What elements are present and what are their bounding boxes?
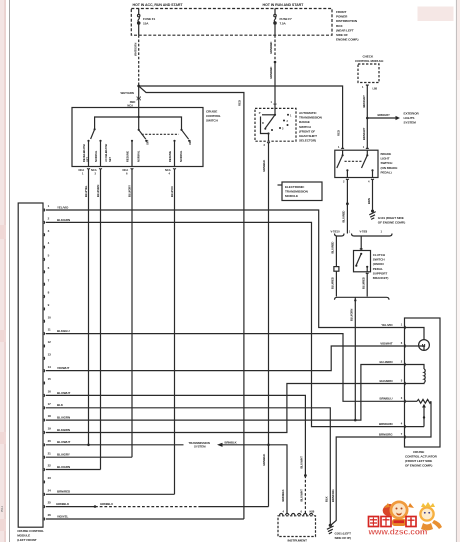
- label clutch switch: [373, 253, 389, 280]
- actuator wire labels: [379, 323, 393, 436]
- inline connector on switch feed: [137, 96, 141, 100]
- svg-text:BRACKET): BRACKET): [373, 276, 389, 280]
- svg-text:SWITCH: SWITCH: [373, 258, 386, 262]
- svg-text:YEL/VIO: YEL/VIO: [57, 205, 69, 209]
- pin L88 of check control module: [366, 84, 369, 87]
- svg-text:BRN/RED: BRN/RED: [57, 490, 71, 494]
- svg-text:11: 11: [48, 328, 51, 332]
- svg-text:ELECTRONIC: ELECTRONIC: [285, 185, 305, 189]
- wire module pin17 BLK to ground G201: [46, 408, 331, 524]
- svg-text:R: R: [262, 122, 264, 125]
- svg-text:2: 2: [401, 359, 403, 363]
- svg-text:FUSE F1: FUSE F1: [143, 17, 156, 21]
- svg-text:CRUISE: CRUISE: [206, 110, 217, 114]
- connector braces V-7/E10 V-7/E8: [331, 230, 393, 237]
- svg-text:3: 3: [95, 172, 97, 176]
- svg-text:7: 7: [401, 432, 403, 436]
- svg-text:NORMAL: NORMAL: [136, 150, 140, 162]
- wire arrow to exterior lights system: [367, 117, 395, 119]
- svg-text:25: 25: [48, 501, 52, 505]
- wire module pin18 BLU/GRN to actuator pin2: [46, 365, 404, 421]
- svg-text:1: 1: [362, 85, 364, 89]
- svg-text:2: 2: [287, 120, 289, 123]
- svg-text:3: 3: [48, 229, 50, 233]
- svg-text:SWITCH: SWITCH: [299, 125, 312, 129]
- switch bottom pins NCA connectors: [79, 168, 176, 176]
- svg-text:SWITCH: SWITCH: [206, 119, 219, 123]
- svg-text:2: 2: [264, 143, 266, 147]
- electronic transmission module label box: [282, 182, 322, 201]
- wire GRN/BLK from range switch to module pin 25: [268, 143, 270, 507]
- wire module pin24 BRN/RED to switch: [46, 493, 175, 495]
- svg-text:MODULE: MODULE: [17, 534, 30, 538]
- svg-text:LIGHTS: LIGHTS: [404, 116, 415, 120]
- svg-text:BLU/GRN: BLU/GRN: [57, 465, 70, 469]
- svg-text:WHT/GRN: WHT/GRN: [121, 91, 134, 95]
- svg-text:GRN/BLK: GRN/BLK: [262, 454, 266, 466]
- svg-text:BOX: BOX: [336, 24, 343, 28]
- svg-text:26: 26: [48, 513, 52, 517]
- svg-text:BLU/GRY: BLU/GRY: [57, 453, 70, 457]
- svg-text:OFF: OFF: [188, 139, 192, 145]
- svg-text:RED: RED: [130, 100, 136, 104]
- svg-text:BLU/YEL: BLU/YEL: [84, 185, 88, 197]
- svg-text:1: 1: [349, 230, 351, 234]
- front power distribution box (dashed): [131, 9, 332, 36]
- svg-text:BLU/GRY: BLU/GRY: [128, 185, 132, 197]
- svg-text:12: 12: [48, 340, 52, 344]
- wire BLU/RED left branch with inline connector: [335, 236, 337, 267]
- svg-text:BLK/BRN: BLK/BRN: [57, 428, 70, 432]
- svg-text:YEL/VIO: YEL/VIO: [381, 323, 393, 327]
- svg-text:2: 2: [48, 217, 50, 221]
- svg-text:20: 20: [48, 439, 52, 443]
- watermark mascot figures: [383, 501, 442, 531]
- svg-text:(NEAR LEFT: (NEAR LEFT: [336, 28, 354, 32]
- svg-text:6: 6: [48, 266, 50, 270]
- svg-text:BRAKE: BRAKE: [381, 152, 392, 156]
- mechanical link (dashed): [142, 133, 179, 135]
- svg-text:AUTOMATIC: AUTOMATIC: [299, 111, 317, 115]
- svg-text:RANGE: RANGE: [299, 120, 310, 124]
- fuse F1: [138, 9, 156, 36]
- svg-text:OF ENGINE COMP.): OF ENGINE COMP.): [378, 221, 405, 225]
- wire module pin11 BLK/BLU to actuator pin3: [46, 334, 404, 402]
- wire module pin25 GRN/BLK dashed to range switch: [46, 506, 95, 508]
- instrument cluster (dashed box): [278, 510, 316, 542]
- svg-text:P: P: [259, 111, 261, 115]
- page fold line: [9, 0, 11, 542]
- svg-text:INSTRUMENT: INSTRUMENT: [288, 539, 308, 542]
- actuator motor M: [405, 328, 430, 351]
- svg-text:RED: RED: [337, 130, 341, 136]
- svg-text:GRN/RED: GRN/RED: [269, 67, 273, 79]
- svg-text:SELECTOR): SELECTOR): [299, 139, 316, 143]
- svg-text:NCA: NCA: [91, 168, 97, 172]
- svg-text:4: 4: [48, 241, 50, 245]
- svg-text:1: 1: [271, 100, 273, 104]
- wire BLU/GRN clutch chain to module pin18 net: [354, 301, 356, 420]
- wire module pin19 BLK/BRN to actuator pin5: [46, 384, 404, 433]
- pin 2 of range switch: [267, 141, 270, 144]
- svg-text:BRN/GRN: BRN/GRN: [379, 422, 392, 426]
- wire module pin21 BLU/GRY to switch: [46, 456, 132, 458]
- switch S2 resume: [131, 129, 148, 167]
- svg-text:(LEFT FRONT: (LEFT FRONT: [17, 538, 37, 542]
- svg-text:RESUME: RESUME: [168, 151, 172, 162]
- svg-text:NCA: NCA: [123, 168, 129, 172]
- svg-text:1: 1: [82, 172, 84, 176]
- svg-text:BLK: BLK: [325, 496, 329, 502]
- svg-text:BLU/VIO: BLU/VIO: [170, 185, 174, 197]
- node BRN/GRY junction: [366, 117, 369, 120]
- svg-text:22: 22: [48, 464, 52, 468]
- label cruise control actuator: [405, 450, 438, 468]
- svg-text:BRN/BLU: BRN/BLU: [380, 397, 393, 401]
- svg-text:BLU/WHT: BLU/WHT: [57, 440, 71, 444]
- svg-text:BLU/RED: BLU/RED: [362, 277, 366, 289]
- svg-text:13: 13: [48, 352, 52, 356]
- wire module pin26 VIO/YEL feed: [46, 518, 244, 520]
- svg-text:DECELERATE/: DECELERATE/: [82, 144, 86, 162]
- svg-text:P54-1: P54-1: [1, 505, 4, 512]
- svg-text:GEAR SHIFT: GEAR SHIFT: [299, 134, 317, 138]
- bottom merge brace: [335, 297, 390, 300]
- svg-text:18: 18: [48, 414, 52, 418]
- scan edge pink stripe: [0, 0, 6, 542]
- svg-text:G201 (LEFT: G201 (LEFT: [335, 532, 352, 536]
- svg-text:BRN: BRN: [367, 198, 371, 204]
- svg-text:7: 7: [48, 278, 50, 282]
- svg-text:6: 6: [301, 510, 303, 514]
- svg-text:(ON BRAKE: (ON BRAKE: [381, 166, 398, 170]
- switch position labels (rotated): [82, 139, 192, 162]
- svg-text:SUPPORT: SUPPORT: [373, 271, 388, 275]
- wire module pin2 BLK/GRN to actuator pin4: [46, 222, 404, 426]
- svg-text:TRANSMISSION: TRANSMISSION: [299, 116, 323, 120]
- svg-text:SYSTEM: SYSTEM: [194, 445, 206, 449]
- wire module pin16 BLU/WHT to instrument cluster: [46, 395, 306, 475]
- ground G201: [327, 524, 334, 534]
- svg-text:EXTERIOR: EXTERIOR: [404, 112, 420, 116]
- wire BRN to ground G101: [372, 180, 374, 210]
- svg-text:4: 4: [169, 172, 171, 176]
- svg-text:BRN/BLK: BRN/BLK: [281, 489, 285, 501]
- svg-text:SET: SET: [86, 157, 90, 162]
- svg-text:FRONT: FRONT: [336, 10, 346, 14]
- svg-text:RESUME: RESUME: [125, 151, 129, 162]
- cruise control switch box: [72, 108, 203, 167]
- svg-text:BLU/WHT: BLU/WHT: [57, 391, 71, 395]
- svg-text:CONTROL: CONTROL: [206, 114, 221, 118]
- svg-text:15: 15: [48, 377, 52, 381]
- svg-text:6: 6: [126, 172, 128, 176]
- svg-text:GRN/RED: GRN/RED: [269, 42, 273, 54]
- svg-text:(ON/ON: (ON/ON: [373, 262, 385, 266]
- svg-text:21: 21: [48, 451, 52, 455]
- svg-text:5: 5: [48, 254, 50, 258]
- svg-text:CRUISE CONTROL: CRUISE CONTROL: [17, 529, 44, 533]
- svg-text:PEDAL): PEDAL): [381, 170, 392, 174]
- node F1 junction: [137, 85, 140, 88]
- svg-text:L88: L88: [373, 87, 378, 91]
- svg-text:BRN/GRY: BRN/GRY: [378, 113, 390, 117]
- svg-text:K88: K88: [310, 510, 315, 514]
- cruise control module box: [18, 203, 43, 527]
- svg-text:ACCELERATE/: ACCELERATE/: [104, 144, 108, 162]
- wire BRN/GRY from check module to brake switch: [366, 85, 368, 149]
- svg-text:BLU/GRN: BLU/GRN: [96, 185, 100, 197]
- svg-text:BRN/ORG: BRN/ORG: [331, 489, 335, 502]
- svg-text:LIGHT: LIGHT: [381, 157, 390, 161]
- svg-text:SIDE OF IP): SIDE OF IP): [335, 536, 351, 540]
- wire switch pin3 down to module pin22: [100, 169, 102, 470]
- wire module pin14 VIO/WHT to actuator pin6: [46, 346, 404, 371]
- svg-text:4: 4: [283, 510, 285, 514]
- svg-text:9: 9: [48, 303, 50, 307]
- svg-text:4: 4: [368, 180, 370, 184]
- svg-text:BLU/BRN: BLU/BRN: [380, 360, 393, 364]
- cruise control actuator box: [405, 318, 441, 447]
- label automatic transmission range switch: [299, 111, 323, 143]
- svg-text:CRUISE: CRUISE: [413, 450, 424, 454]
- svg-text:G101 (RIGHT SIDE: G101 (RIGHT SIDE: [378, 216, 404, 220]
- svg-text:TRANSMISSION: TRANSMISSION: [285, 189, 309, 193]
- svg-text:PEDAL: PEDAL: [373, 267, 383, 271]
- faint pink wash top right: [418, 7, 454, 22]
- wire BRN/ORG from actuator to ground G201: [331, 437, 404, 525]
- wire module pin22 BLU/GRN to switch: [46, 469, 101, 471]
- svg-text:BLU/RED: BLU/RED: [331, 242, 335, 254]
- svg-text:HOT IN RUN AND START: HOT IN RUN AND START: [263, 3, 305, 7]
- svg-text:OF ENGINE COMP.): OF ENGINE COMP.): [405, 464, 432, 468]
- svg-text:5: 5: [401, 378, 403, 382]
- module connector pins 1-26: [44, 204, 51, 520]
- wire module pin1 YEL/VIO to actuator pin1: [46, 210, 404, 328]
- svg-text:2: 2: [343, 180, 345, 184]
- svg-text:BRN/BLK: BRN/BLK: [225, 440, 237, 444]
- svg-text:MODULE: MODULE: [285, 194, 298, 198]
- svg-text:NORMAL: NORMAL: [94, 150, 98, 162]
- svg-text:GRN/BLU: GRN/BLU: [100, 502, 113, 506]
- svg-text:ENGINE COMP.): ENGINE COMP.): [336, 38, 359, 42]
- svg-text:SWITCH: SWITCH: [381, 161, 394, 165]
- wire switch pin1 down to pin20 line: [88, 169, 90, 445]
- wire labels below switch: [84, 185, 174, 197]
- brake switch contacts: [337, 150, 374, 177]
- svg-text:BRN/GRY: BRN/GRY: [362, 128, 366, 140]
- svg-text:BLU/RED: BLU/RED: [331, 277, 335, 289]
- wire GRN/RED from fuse F7: [274, 35, 276, 61]
- svg-text:BLU/GRN: BLU/GRN: [349, 309, 353, 321]
- svg-text:(FRONT OF: (FRONT OF: [299, 129, 315, 133]
- pin 1 of range switch: [274, 103, 277, 106]
- svg-text:3: 3: [282, 128, 284, 131]
- svg-text:BLU/GRN: BLU/GRN: [57, 416, 70, 420]
- wire A to brake light switch: [139, 86, 343, 149]
- svg-text:BRN/ORG: BRN/ORG: [379, 432, 393, 436]
- svg-text:14: 14: [48, 365, 52, 369]
- svg-text:FUSE F7: FUSE F7: [280, 17, 293, 21]
- clutch switch: [360, 236, 362, 250]
- svg-text:SIDE OF: SIDE OF: [336, 33, 348, 37]
- svg-text:V-7/E10: V-7/E10: [331, 230, 341, 234]
- actuator position potentiometer: [405, 399, 432, 437]
- wire B (RED) to module pin 26: [139, 86, 244, 519]
- wire module pin20 BLU/WHT / transmission system arrow / cluster pin4: [46, 444, 184, 446]
- svg-text:(FRONT LEFT SIDE: (FRONT LEFT SIDE: [405, 459, 432, 463]
- svg-text:NCA: NCA: [165, 168, 171, 172]
- svg-text:24: 24: [48, 488, 52, 492]
- svg-text:BLU/WHT: BLU/WHT: [299, 456, 303, 469]
- svg-text:VIO/YEL: VIO/YEL: [57, 514, 69, 518]
- svg-text:1: 1: [401, 322, 403, 326]
- svg-text:1: 1: [48, 204, 50, 208]
- svg-text:10: 10: [48, 315, 52, 319]
- svg-text:BLK/GRN: BLK/GRN: [57, 218, 70, 222]
- brake light switch box: [335, 150, 378, 177]
- wire switch pin4 down to module pin24: [174, 169, 176, 495]
- svg-text:VIO/WHT: VIO/WHT: [380, 341, 393, 345]
- switch S1 set/accel rocker: [87, 128, 101, 166]
- svg-text:HOT IN ACC, RUN AND START: HOT IN ACC, RUN AND START: [133, 3, 184, 7]
- svg-text:15A: 15A: [143, 22, 149, 26]
- svg-text:www.dzsc.com: www.dzsc.com: [368, 526, 428, 536]
- svg-text:17: 17: [48, 402, 52, 406]
- svg-text:V-7/E8: V-7/E8: [360, 230, 368, 234]
- check control module (dashed): [358, 64, 379, 83]
- svg-text:1: 1: [338, 145, 340, 149]
- svg-text:CLUTCH: CLUTCH: [373, 253, 386, 257]
- label brake light switch: [381, 152, 398, 174]
- ground G101: [369, 210, 375, 220]
- svg-text:NCA: NCA: [79, 168, 85, 172]
- svg-text:BLK: BLK: [57, 403, 64, 407]
- automatic transmission range switch (dashed box): [255, 108, 296, 141]
- svg-text:GRN/BLK: GRN/BLK: [262, 160, 266, 172]
- wire BLU/RED from brake switch: [346, 180, 348, 234]
- svg-text:CONTROL MODULE: CONTROL MODULE: [355, 59, 383, 63]
- svg-text:BRN/GRY: BRN/GRY: [362, 95, 366, 107]
- svg-text:OFF: OFF: [145, 139, 149, 145]
- svg-text:6: 6: [401, 341, 403, 345]
- svg-text:8: 8: [48, 291, 50, 295]
- svg-text:3: 3: [401, 396, 403, 400]
- brake switch bottom pins: [346, 178, 349, 181]
- switch S3 on/off: [173, 129, 190, 167]
- svg-text:1: 1: [363, 145, 365, 149]
- svg-text:GRN/BLK: GRN/BLK: [56, 502, 70, 506]
- svg-text:SET: SET: [108, 157, 112, 162]
- label front power distribution box: [336, 10, 359, 42]
- svg-text:1: 1: [290, 115, 292, 118]
- svg-text:BLU/RED: BLU/RED: [342, 211, 346, 223]
- wire WHT/GRN from fuse F1 (dashed drop): [138, 35, 140, 86]
- svg-text:BLU/WHT: BLU/WHT: [299, 489, 303, 502]
- watermark text 维库一下 www.dzsc.com: [368, 517, 428, 537]
- svg-text:23: 23: [48, 476, 52, 480]
- svg-text:7.5A: 7.5A: [280, 22, 287, 26]
- svg-text:WHT/GRN: WHT/GRN: [133, 43, 137, 56]
- svg-text:BLK/BRN: BLK/BRN: [380, 379, 393, 383]
- svg-text:NORMAL: NORMAL: [179, 150, 183, 162]
- svg-text:VIO/WHT: VIO/WHT: [57, 366, 70, 370]
- switch feed bus: [138, 108, 140, 130]
- svg-text:SYSTEM: SYSTEM: [404, 121, 417, 125]
- svg-text:POWER: POWER: [336, 15, 348, 19]
- svg-text:DISTRIBUTION: DISTRIBUTION: [336, 19, 358, 23]
- svg-text:4: 4: [401, 421, 403, 425]
- svg-text:RED: RED: [238, 100, 242, 106]
- wire switch pin6 down to module pin21: [131, 169, 133, 457]
- actuator clutch coil: [405, 365, 426, 384]
- svg-text:19: 19: [48, 427, 52, 431]
- svg-text:BLK/BLU: BLK/BLU: [57, 329, 70, 333]
- svg-text:16: 16: [48, 390, 52, 394]
- label cruise control module: [17, 529, 44, 542]
- svg-text:1: 1: [381, 230, 383, 234]
- fuse F7: [274, 9, 292, 36]
- svg-text:CONTROL ACTUATOR: CONTROL ACTUATOR: [405, 454, 438, 458]
- actuator pins: [401, 322, 406, 438]
